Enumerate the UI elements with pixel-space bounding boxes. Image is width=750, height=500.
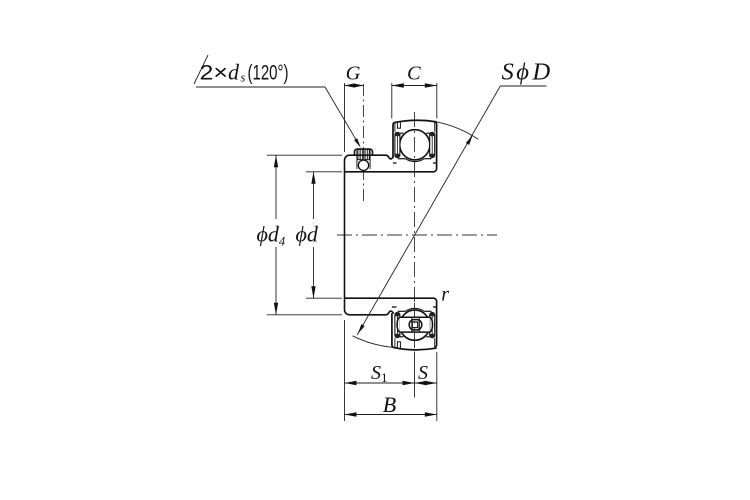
set screw axis centerline: [363, 84, 365, 203]
set screw thread hatch: [359, 149, 369, 159]
svg-text:r: r: [441, 284, 449, 306]
dimension phi d4: [267, 154, 342, 156]
outer raceway shoulders bottom: [400, 336, 404, 338]
arrow C left: [392, 83, 404, 87]
top ball: [400, 130, 430, 160]
svg-text:2×: 2×: [200, 61, 229, 84]
bore bottom line: [345, 298, 437, 300]
dimension S: [436, 352, 438, 421]
arrow d4 bot: [274, 303, 278, 315]
cage band mask: [400, 317, 430, 333]
snap ring groove top-left: [396, 122, 398, 128]
svg-text:C: C: [407, 63, 421, 85]
outer ring bottom top edges: [392, 306, 397, 308]
arrow S1 right: [403, 381, 415, 385]
bottom ball: [400, 310, 430, 340]
right face lower section: [436, 300, 437, 348]
shaft axis centerline: [337, 234, 497, 236]
set screw leader: [194, 55, 208, 84]
outer ring top: inner face line right: [434, 122, 436, 132]
inner ring sleeve top surface with step: [350, 155, 394, 159]
arrow G right: [354, 83, 364, 87]
dimension C: [391, 83, 393, 119]
dimension phi d: [306, 171, 342, 173]
arrow S left: [415, 381, 427, 385]
inner raceway groove arc top: [405, 159, 424, 162]
outer ring top: spherical arc (thick): [394, 120, 436, 122]
arrow SphiD top: [466, 135, 473, 145]
seal bottom-left: [395, 312, 400, 337]
outer ring bottom: inner face line left: [394, 338, 396, 347]
dimension S1: [344, 320, 346, 421]
svg-text:s: s: [241, 71, 246, 85]
arrow S right: [425, 381, 437, 385]
sphere silhouette arc thin bottom-left: [353, 336, 394, 348]
arrow d top: [311, 172, 315, 184]
outer ring bottom: left face: [392, 313, 393, 347]
outer ring top: left face: [393, 123, 394, 157]
snap ring groove bottom-left: [396, 342, 398, 348]
svg-text:S: S: [418, 362, 428, 384]
arrow d bot: [311, 286, 315, 298]
arrow B left: [345, 412, 357, 416]
cage band: [397, 317, 433, 332]
inner ring left face: [345, 155, 350, 315]
inner ring sleeve bottom surface with step: [350, 311, 394, 315]
right face upper section: [436, 122, 437, 170]
seal top-right: [430, 132, 435, 157]
outer ring top: inner face line left: [394, 122, 396, 131]
SphiD diameter line: [357, 86, 500, 335]
arrow SphiD bot: [358, 324, 365, 334]
svg-text:(120°): (120°): [248, 61, 289, 84]
sphere silhouette arc thin top-right: [437, 122, 479, 139]
seal top-left: [395, 132, 400, 157]
cage rivet: [409, 320, 422, 330]
svg-text:SϕD: SϕD: [502, 59, 551, 86]
dimension B: [345, 414, 437, 416]
label phi d4: [254, 219, 289, 247]
outer raceway shoulders top: [400, 132, 404, 134]
outer ring bottom: inner face line right: [434, 338, 436, 348]
label phi d: [295, 219, 323, 247]
svg-text:d: d: [228, 59, 240, 84]
outer ring bottom: spherical arc (thick): [393, 347, 437, 349]
outer ring top bottom edges: [393, 162, 397, 164]
svg-text:ϕd: ϕd: [296, 222, 319, 247]
set screw hole walls: [356, 150, 358, 169]
arrow C right: [425, 83, 437, 87]
inner raceway groove arc bottom: [405, 308, 424, 311]
inner raceway shoulders bottom: [398, 310, 406, 312]
bearing center plane centerline: [414, 112, 416, 348]
bore top line: [345, 170, 437, 172]
arrow set screw leader: [354, 138, 361, 148]
arrow B right: [425, 412, 437, 416]
arrow G left: [345, 83, 355, 87]
set screw boss: [355, 149, 373, 155]
set screw ball: [358, 160, 368, 170]
inner raceway shoulders top: [398, 158, 406, 160]
dimension G: [344, 83, 346, 152]
seal bottom-right: [430, 312, 435, 337]
arrow S1 left: [345, 381, 357, 385]
svg-text:G: G: [346, 63, 361, 85]
svg-text:B: B: [383, 392, 396, 417]
arrow d4 top: [274, 155, 278, 167]
set screw body outline: [357, 149, 370, 159]
